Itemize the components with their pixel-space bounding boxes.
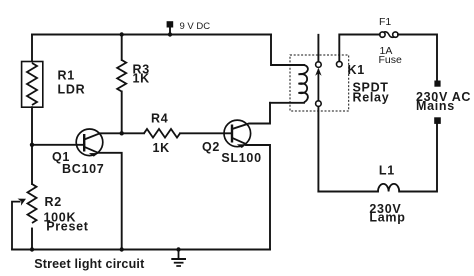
- preset R2: [12, 184, 37, 250]
- junction dot ground: [176, 247, 180, 251]
- preset R2 wiper arrow: [18, 197, 28, 206]
- wire Q2 emitter drop: [246, 145, 270, 250]
- wire contact stub (unused throw): [317, 35, 319, 62]
- svg-text:R2: R2: [45, 195, 62, 209]
- transistor Q2: [224, 120, 251, 147]
- junction dot R2 bottom: [30, 247, 34, 251]
- svg-text:L1: L1: [379, 164, 395, 178]
- wire Q1 emitter drop: [98, 153, 122, 250]
- wire throw contact up to fuse: [339, 35, 380, 62]
- svg-text:K1: K1: [348, 63, 365, 77]
- junction dot emitter bottom: [120, 247, 124, 251]
- wire bottom rail: [12, 249, 270, 251]
- junction dot collector: [120, 131, 124, 135]
- wire left vertical upper: [31, 35, 33, 62]
- wire R4 right to Q2 base: [180, 132, 232, 134]
- relay throw contact circle (unused): [316, 62, 322, 68]
- wire relay common down to lamp row: [317, 106, 319, 191]
- relay armature: [317, 70, 319, 101]
- svg-text:Street light circuit: Street light circuit: [34, 257, 145, 271]
- svg-text:LDR: LDR: [58, 82, 86, 96]
- ground: [171, 250, 186, 267]
- terminal 9V square: [167, 21, 174, 27]
- terminal mains top square: [434, 81, 440, 87]
- relay common contact circle: [316, 101, 322, 107]
- wire top rail: [32, 34, 271, 36]
- svg-text:Mains: Mains: [416, 99, 455, 113]
- wire coil bottom return: [270, 102, 304, 104]
- relay armature arrowhead: [315, 68, 321, 76]
- relay K1 dashed box: [290, 55, 349, 111]
- lamp L1: [378, 184, 399, 192]
- junction dot Q1 base: [30, 143, 34, 147]
- svg-text:9 V DC: 9 V DC: [180, 21, 211, 32]
- svg-text:Q2: Q2: [202, 140, 220, 154]
- wire Q2 collector to coil return: [232, 103, 270, 129]
- wire lamp row left: [318, 191, 378, 193]
- svg-text:1K: 1K: [153, 141, 170, 155]
- wire Q1 base: [32, 144, 84, 146]
- relay throw contact circle (to fuse): [337, 61, 343, 67]
- junction dot 9V: [168, 32, 172, 36]
- transistor Q1: [76, 129, 103, 156]
- transistor Q1 emitter arrow: [89, 151, 99, 157]
- svg-text:Preset: Preset: [46, 220, 89, 234]
- resistor R1 LDR: [22, 62, 43, 108]
- wire R3 top: [121, 35, 123, 61]
- svg-text:Fuse: Fuse: [379, 54, 403, 66]
- transistor Q2 emitter arrow: [237, 143, 247, 149]
- relay coil: [299, 65, 308, 102]
- svg-text:SL100: SL100: [221, 151, 261, 165]
- wire top rail drop to coil top: [271, 35, 304, 66]
- svg-text:Lamp: Lamp: [369, 211, 405, 225]
- fuse F1: [380, 32, 398, 38]
- wire Q1 collector: [84, 133, 122, 139]
- svg-text:R1: R1: [58, 69, 75, 83]
- svg-text:BC107: BC107: [62, 162, 104, 176]
- wire lamp row right: [399, 124, 437, 192]
- svg-text:1K: 1K: [133, 72, 150, 86]
- wire LDR bottom to R2 top: [31, 107, 33, 184]
- wire 9V stub: [169, 27, 171, 35]
- wire R4 left: [122, 132, 144, 134]
- svg-text:R4: R4: [151, 112, 168, 126]
- resistor R3: [117, 60, 126, 92]
- terminal mains bottom square: [434, 117, 441, 124]
- wire R2 bottom to rail: [31, 229, 33, 250]
- junction dot R3 top: [120, 32, 124, 36]
- svg-text:F1: F1: [379, 16, 391, 28]
- wire R3 bottom to collector junction: [121, 92, 123, 134]
- resistor R4: [144, 129, 180, 138]
- wire fuse to mains corner: [398, 35, 437, 81]
- svg-text:Relay: Relay: [353, 91, 390, 105]
